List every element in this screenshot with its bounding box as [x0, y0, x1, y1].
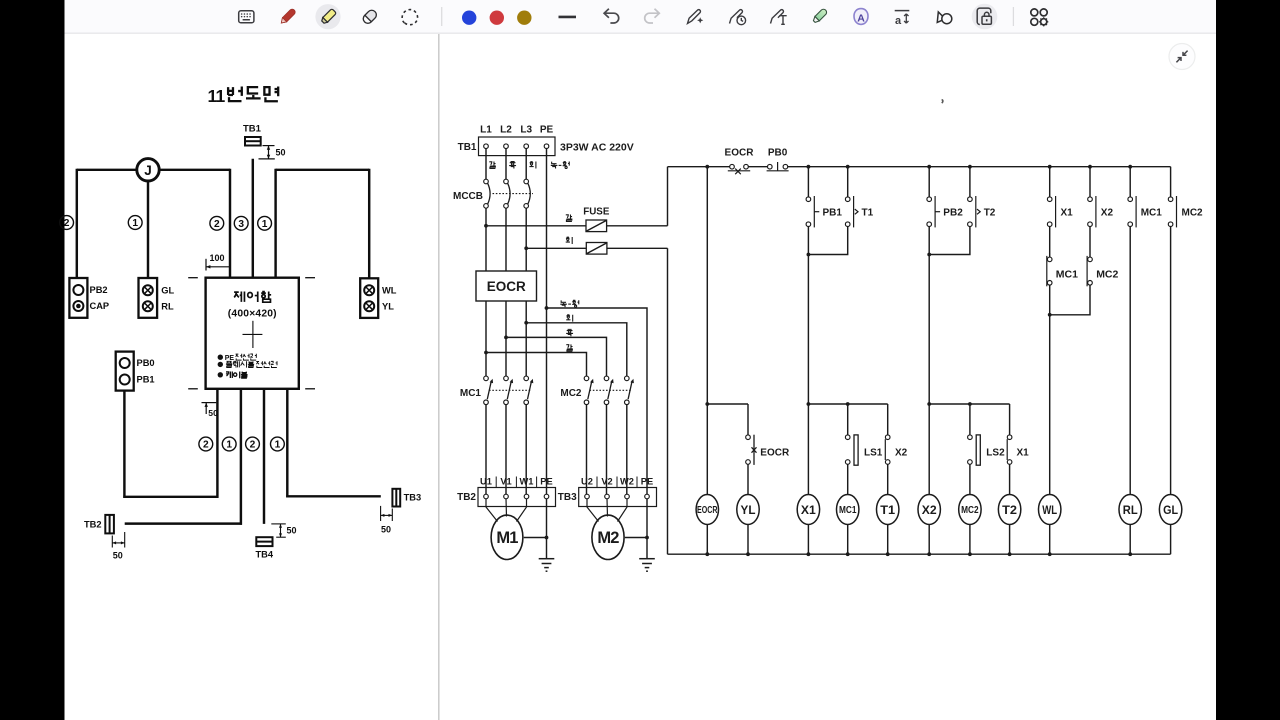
흑 label — [566, 329, 573, 336]
pushbutton box PB2/CAP — [69, 278, 109, 318]
EOCR contact label — [725, 147, 755, 158]
wire L3 EOCR to MC1 — [525, 301, 527, 376]
lamp YL — [737, 495, 759, 525]
svg-text:2: 2 — [214, 219, 220, 230]
wire EOCR coil to bottom rail — [706, 525, 708, 555]
wire tee to YL branch — [707, 403, 748, 405]
lamp box GL/RL — [139, 278, 175, 318]
wire X1 to MC1 series — [1049, 227, 1051, 258]
toolbar separator 2 — [1012, 7, 1014, 26]
relay coil EOCR — [696, 495, 718, 525]
stroke width (minus) icon — [559, 16, 577, 19]
wire PB1 branch down — [807, 255, 809, 405]
apps grid icon — [1031, 9, 1048, 26]
wire right vertical to WL/YL — [368, 169, 370, 279]
PB1/T1 join — [807, 227, 848, 257]
svg-text:(400×420): (400×420) — [228, 309, 277, 320]
PB0 label — [768, 147, 788, 158]
wire PB2 branch down — [928, 255, 930, 405]
terminal block TB1 — [479, 137, 556, 156]
node L2 tap — [504, 336, 508, 340]
svg-text:1: 1 — [262, 219, 268, 230]
wire LS1 to MC1 coil — [847, 464, 849, 494]
text-spacing icon — [895, 11, 910, 28]
MC1 dashed link — [489, 389, 531, 391]
corner dash marks around control box — [188, 278, 315, 389]
left letterbox bar — [0, 0, 65, 720]
svg-text:2: 2 — [64, 218, 70, 229]
wire fuse2 to left rail — [607, 247, 668, 249]
wire rail to X2 contact — [1089, 167, 1091, 197]
pushbutton PB2 — [927, 196, 940, 227]
TB2 label — [457, 492, 476, 503]
ground symbol M2 — [639, 559, 655, 572]
EOCR NC label — [760, 448, 790, 459]
svg-text:PB1: PB1 — [137, 375, 155, 385]
node top rail PB2 — [927, 165, 931, 169]
contactor coil MC1 — [837, 495, 859, 525]
top rail — [668, 166, 1171, 168]
conduit number 2 (box wire) — [210, 216, 224, 230]
wire L1 TB1 to MCCB — [485, 149, 487, 180]
wire bottom 2 from box to TB2 line — [240, 389, 242, 525]
MCCB pole 3 — [524, 179, 530, 208]
node bottom rail EOCR — [705, 552, 709, 556]
wire MC1 contact down to RL — [1129, 227, 1131, 495]
PB0 NC pushbutton — [767, 162, 789, 171]
MCCB dashed link — [493, 193, 534, 195]
wire 2 down to control box top — [229, 169, 231, 278]
conduit number 1 (bottom wire4) — [271, 437, 285, 451]
motor M2 leads — [587, 499, 627, 522]
legend line 3: cable — [218, 372, 248, 379]
node top rail T2 — [968, 165, 972, 169]
svg-text:PB0: PB0 — [768, 147, 788, 158]
wire L2 MCCB to EOCR — [505, 208, 507, 271]
limit switch LS2 — [968, 435, 981, 465]
terminal TB2 symbol — [105, 515, 114, 534]
wire PB0/PB1 down — [123, 391, 125, 498]
svg-text:50: 50 — [208, 408, 218, 418]
svg-text:A: A — [857, 13, 865, 25]
dimension 50 below box — [202, 403, 219, 418]
motor M2 — [592, 515, 624, 559]
node bottom rail WL — [1048, 552, 1052, 556]
wire 1 right vertical into box — [274, 169, 276, 278]
highlighter tool icon (selected) — [315, 4, 340, 29]
wire X2 tee across — [929, 403, 1009, 405]
node top rail T1 — [846, 165, 850, 169]
wire X2 contact to T1 coil — [887, 464, 889, 494]
svg-text:MC2: MC2 — [1182, 207, 1204, 218]
svg-text:EOCR: EOCR — [487, 279, 526, 294]
node X1 coil tee — [807, 402, 811, 406]
svg-text:X2: X2 — [922, 503, 937, 517]
svg-text:100: 100 — [210, 253, 225, 263]
dimension 50 at TB1 — [259, 146, 286, 159]
left rail upper segment (from fuse1) — [667, 167, 669, 226]
wire fuse1 to left rail — [607, 225, 668, 227]
svg-text:YL: YL — [741, 503, 756, 517]
wire L2 TB1 to MCCB — [505, 149, 507, 180]
wire L2 tap to MC2 pole2 — [506, 337, 607, 376]
MCCB label — [453, 191, 483, 202]
wire horizontal TB2 line — [125, 522, 242, 524]
svg-text:1: 1 — [132, 218, 138, 229]
node EOCR-YL tee — [705, 402, 709, 406]
node bottom rail X1 — [807, 552, 811, 556]
limit switch LS1 — [845, 435, 858, 465]
control box name text — [234, 292, 271, 303]
wire PE tap to M2 column — [547, 308, 648, 494]
bottom rail — [668, 553, 1171, 555]
svg-text:X1: X1 — [1017, 448, 1030, 459]
lasso tool icon — [402, 10, 417, 25]
motor M1 — [491, 515, 523, 559]
svg-text:U2: U2 — [581, 476, 593, 486]
relay contact X2 — [1088, 196, 1096, 227]
node bottom rail T2 — [1008, 552, 1012, 556]
wire X1 contact to T2 coil — [1009, 464, 1011, 494]
X2 label — [1101, 207, 1114, 218]
TB3 label — [558, 492, 577, 503]
lamp WL — [1039, 495, 1061, 525]
timer coil T2 — [998, 495, 1020, 525]
wire L3 to fuse2 — [526, 247, 586, 249]
svg-text:50: 50 — [113, 551, 123, 561]
wire X1 tee down to coil — [807, 404, 809, 495]
T1 label — [862, 207, 874, 218]
wire MC2 coil to bottom rail — [969, 525, 971, 555]
node bottom rail MC1 — [846, 552, 850, 556]
svg-text:MC1: MC1 — [460, 388, 482, 399]
svg-text:TB2: TB2 — [84, 519, 102, 529]
conduit number 3 (TB1 wire) — [234, 216, 248, 230]
svg-text:LS1: LS1 — [864, 448, 883, 459]
svg-text:TB4: TB4 — [256, 550, 274, 560]
svg-text:MCCB: MCCB — [453, 191, 483, 202]
wire rail to PB2 — [928, 167, 930, 197]
letter-A sticker icon — [854, 9, 868, 25]
svg-text:50: 50 — [287, 526, 297, 536]
collapse floating button — [1169, 44, 1195, 70]
svg-text:MC2: MC2 — [1096, 269, 1118, 281]
terminal TB1 symbol — [245, 137, 261, 146]
wire bottom 4 from box to TB3 line — [286, 389, 288, 498]
svg-text:J: J — [144, 163, 152, 178]
dimension 100 at box top — [206, 253, 230, 271]
wire 2 left vertical to PB2/CAP — [76, 169, 78, 278]
wire MC1 pole 1 to TB2 — [485, 405, 487, 495]
pen-sparkle icon — [688, 10, 704, 24]
wire rail to X1 contact — [1049, 167, 1051, 197]
MC2 label — [560, 388, 582, 399]
wire 3 from TB1 down to control box — [252, 159, 254, 278]
U2 V2 W2 PE labels — [581, 476, 653, 487]
svg-text:X2: X2 — [895, 448, 908, 459]
T2 label — [984, 207, 996, 218]
wire MC2 pole 3 to TB3 — [626, 405, 628, 495]
LS2 label — [986, 448, 1005, 459]
MC2 aux label — [1182, 207, 1204, 218]
svg-text:MC1: MC1 — [1056, 269, 1078, 281]
wire L2 EOCR to MC1 — [505, 301, 507, 376]
svg-text:L3: L3 — [520, 125, 532, 136]
terminal block TB3 — [579, 488, 657, 507]
node M2 PE — [645, 536, 649, 540]
svg-text:T1: T1 — [880, 503, 895, 517]
wire X2 tee down to coil — [928, 404, 930, 495]
녹-황 label — [560, 300, 578, 307]
contactor aux MC1 — [1128, 196, 1136, 227]
terminal TB3 symbol — [392, 489, 400, 507]
ground symbol M1 — [539, 559, 555, 572]
svg-text:MC1: MC1 — [1141, 207, 1163, 218]
wire rail to T1 contact — [847, 167, 849, 197]
node top rail EOCR coil — [705, 165, 709, 169]
dimension 50 below TB3 — [381, 506, 393, 535]
X2 branch label — [895, 448, 908, 459]
svg-text:V1: V1 — [500, 476, 511, 486]
wire J left horizontal — [77, 169, 137, 171]
toolbar separator 1 — [441, 7, 443, 26]
relay coil X2 — [918, 495, 940, 525]
pushbutton box PB0/PB1 — [116, 352, 155, 391]
wire X1 coil to bottom rail — [807, 525, 809, 555]
PB2 label — [943, 207, 963, 218]
junction box J — [137, 159, 159, 181]
wire T2 coil to bottom rail — [1009, 525, 1011, 555]
wire 1 from J down to GL/RL — [147, 181, 149, 278]
wire T2 branch down — [1009, 404, 1011, 435]
svg-text:U1: U1 — [480, 476, 492, 486]
wire L1 tap to MC2 pole1 — [486, 353, 587, 377]
motor M1 leads — [486, 499, 527, 522]
contact MC2 below X2 — [1087, 256, 1092, 286]
회 label — [566, 315, 572, 322]
svg-text:3P3W AC 220V: 3P3W AC 220V — [560, 142, 634, 154]
wire EOCR coil branch — [706, 167, 708, 495]
MC2 series label — [1096, 269, 1118, 281]
contact MC1 below X1 — [1047, 256, 1052, 286]
svg-text:T2: T2 — [984, 207, 996, 218]
wire horizontal TB3 line — [286, 495, 381, 497]
X1MC1/X2MC2 join — [1048, 285, 1090, 317]
wire LS2 branch down — [969, 404, 971, 435]
relay contact X2 (T1 branch) — [885, 435, 890, 464]
X1 branch label — [1017, 448, 1030, 459]
svg-text:L2: L2 — [500, 125, 512, 136]
EOCR block — [476, 271, 537, 301]
wire MC1 pole 3 to TB2 — [525, 405, 527, 495]
conduit number 1 (bottom wire2) — [222, 437, 236, 451]
lamp RL — [1119, 495, 1141, 525]
svg-text:GL: GL — [161, 286, 174, 296]
fuse F1 — [586, 220, 607, 232]
wire horizontal PB0-branch — [123, 496, 218, 498]
wire bottom 3 from box to TB4 — [263, 389, 265, 524]
dimension 50 below TB2 — [112, 532, 124, 561]
svg-text:2: 2 — [250, 440, 256, 451]
svg-text:X1: X1 — [1061, 207, 1074, 218]
node X2 coil tee — [927, 402, 931, 406]
wire PE2 to ground M2 — [646, 499, 648, 559]
svg-text:50: 50 — [381, 525, 391, 535]
svg-text:PB0: PB0 — [137, 358, 155, 368]
red color dot — [490, 11, 504, 25]
node top rail X1 — [1048, 165, 1052, 169]
svg-text:TB2: TB2 — [457, 492, 476, 503]
source label 3P3W AC 220V — [560, 142, 634, 154]
dimension 50 above TB4 — [271, 524, 296, 537]
svg-text:M2: M2 — [597, 529, 619, 547]
svg-text:FUSE: FUSE — [583, 207, 610, 218]
PB2/T2 join — [927, 227, 970, 257]
svg-text:PB2: PB2 — [90, 285, 108, 295]
node L3 fuse tap — [524, 246, 528, 250]
fuse F2 — [586, 243, 607, 255]
wire T1 coil to bottom rail — [887, 525, 889, 555]
wire L1 EOCR to MC1 — [485, 301, 487, 376]
svg-text:GL: GL — [1163, 503, 1178, 517]
wire MC2 pole 2 to TB3 — [606, 405, 608, 495]
contactor coil MC2 — [959, 495, 981, 525]
svg-text:M1: M1 — [496, 529, 518, 547]
conduit number 2 (bottom wire1) — [199, 437, 213, 451]
wire rail to T2 contact — [969, 167, 971, 197]
node bottom rail YL — [746, 552, 750, 556]
relay coil X1 — [797, 495, 819, 525]
svg-text:2: 2 — [203, 440, 209, 451]
phase labels L1 L2 L3 PE — [480, 125, 553, 136]
node bottom rail MC2 — [968, 552, 972, 556]
contactor MC1 pole 3 — [524, 376, 533, 405]
MCCB pole 2 — [504, 179, 510, 208]
node top rail MC1 — [1128, 165, 1132, 169]
node LS2 branch — [968, 402, 972, 406]
lock-rotation icon (circled) — [972, 4, 998, 30]
svg-text:a: a — [895, 15, 902, 27]
node L1 tap — [484, 351, 488, 355]
svg-text:V2: V2 — [601, 476, 612, 486]
wire WL branch down — [1049, 315, 1051, 495]
svg-text:EOCR: EOCR — [725, 147, 755, 158]
wire GL coil to bottom rail — [1170, 525, 1172, 555]
MC1 series label — [1056, 269, 1078, 281]
svg-text:WL: WL — [1042, 503, 1057, 517]
svg-text:EOCR: EOCR — [760, 448, 790, 459]
pen-text icon — [771, 10, 787, 25]
svg-text:W1: W1 — [520, 476, 534, 486]
lamp GL — [1159, 495, 1181, 525]
wire X2 to MC2 series — [1089, 227, 1091, 258]
LS1 label — [864, 448, 883, 459]
svg-text:W2: W2 — [620, 476, 634, 486]
wire WL coil to bottom rail — [1049, 525, 1051, 555]
wire PE to ground M1 — [546, 499, 548, 559]
wire bottom 1 from box — [216, 389, 218, 498]
conduit number 2 (bottom wire3) — [246, 437, 260, 451]
relay contact X1 (T2 branch) — [1007, 435, 1012, 464]
blue color dot — [462, 11, 476, 25]
PB1 label — [823, 207, 843, 218]
svg-text:RL: RL — [1123, 503, 1138, 517]
svg-text:PB2: PB2 — [943, 207, 963, 218]
wire PE down from TB1 — [546, 149, 548, 495]
svg-text:TB1: TB1 — [243, 124, 262, 135]
contactor aux MC2 — [1168, 196, 1176, 227]
terminal block TB2 — [478, 488, 556, 507]
svg-text:MC2: MC2 — [961, 504, 979, 516]
node M1 PE — [545, 536, 549, 540]
node LS1 branch — [846, 402, 850, 406]
wire M2 to PE — [625, 537, 647, 539]
pushbutton PB1 — [806, 196, 819, 227]
contactor MC2 pole 1 — [584, 376, 593, 405]
wire X1 tee across — [808, 403, 887, 405]
wire L3 tap to MC2 pole3 — [526, 323, 627, 376]
wire L1 to fuse1 — [486, 225, 586, 227]
olive color dot — [517, 11, 531, 25]
timer coil T1 — [877, 495, 899, 525]
wire RL coil to bottom rail — [1129, 525, 1131, 555]
node bottom rail X2 — [927, 552, 931, 556]
회 label at fuse2 — [566, 237, 572, 244]
X1 label — [1061, 207, 1074, 218]
svg-text:X2: X2 — [1101, 207, 1114, 218]
panel divider — [438, 34, 440, 720]
svg-text:RL: RL — [161, 302, 174, 312]
wire MC2 contact down to GL — [1170, 227, 1172, 495]
svg-text:MC1: MC1 — [839, 504, 857, 516]
undo icon — [604, 9, 619, 23]
svg-text:TB3: TB3 — [404, 493, 422, 503]
wire right horizontal to WL/YL — [276, 169, 370, 171]
control box 제어함 — [206, 278, 299, 389]
wire M1 to PE — [524, 537, 547, 539]
red pencil tool icon — [279, 8, 296, 25]
svg-text:T2: T2 — [1002, 503, 1017, 517]
svg-text:1: 1 — [226, 440, 232, 451]
svg-text:PB1: PB1 — [823, 207, 843, 218]
wire LS2 to MC2 coil — [969, 464, 971, 494]
lamp box WL/YL — [360, 278, 397, 318]
갈 label — [566, 344, 572, 351]
node L1 fuse tap — [484, 224, 488, 228]
svg-text:L1: L1 — [480, 125, 492, 136]
wire L3 MCCB to EOCR — [525, 208, 527, 271]
node bottom rail T1 — [886, 552, 890, 556]
wire rail to MC1 contact — [1129, 167, 1131, 197]
wire LS1 branch down — [847, 404, 849, 435]
terminal TB4 symbol — [256, 537, 272, 546]
svg-text:LS2: LS2 — [986, 448, 1005, 459]
conduit number 2 (left wire) — [60, 216, 74, 230]
MC1 aux label — [1141, 207, 1163, 218]
wire rail to PB1 — [807, 167, 809, 197]
svg-text:PE: PE — [641, 476, 653, 486]
shapes icon — [935, 11, 952, 24]
svg-text:1: 1 — [275, 440, 281, 451]
wire YL branch to EOCR NC — [747, 404, 749, 435]
wire rail corner to MC2 contact — [1170, 167, 1172, 197]
svg-text:CAP: CAP — [90, 301, 110, 311]
legend line 2: flexible conduit — [218, 361, 277, 367]
svg-text:50: 50 — [276, 148, 286, 158]
node top rail X2 — [1088, 165, 1092, 169]
svg-text:TB1: TB1 — [458, 142, 477, 153]
toolbar background — [65, 0, 1217, 33]
